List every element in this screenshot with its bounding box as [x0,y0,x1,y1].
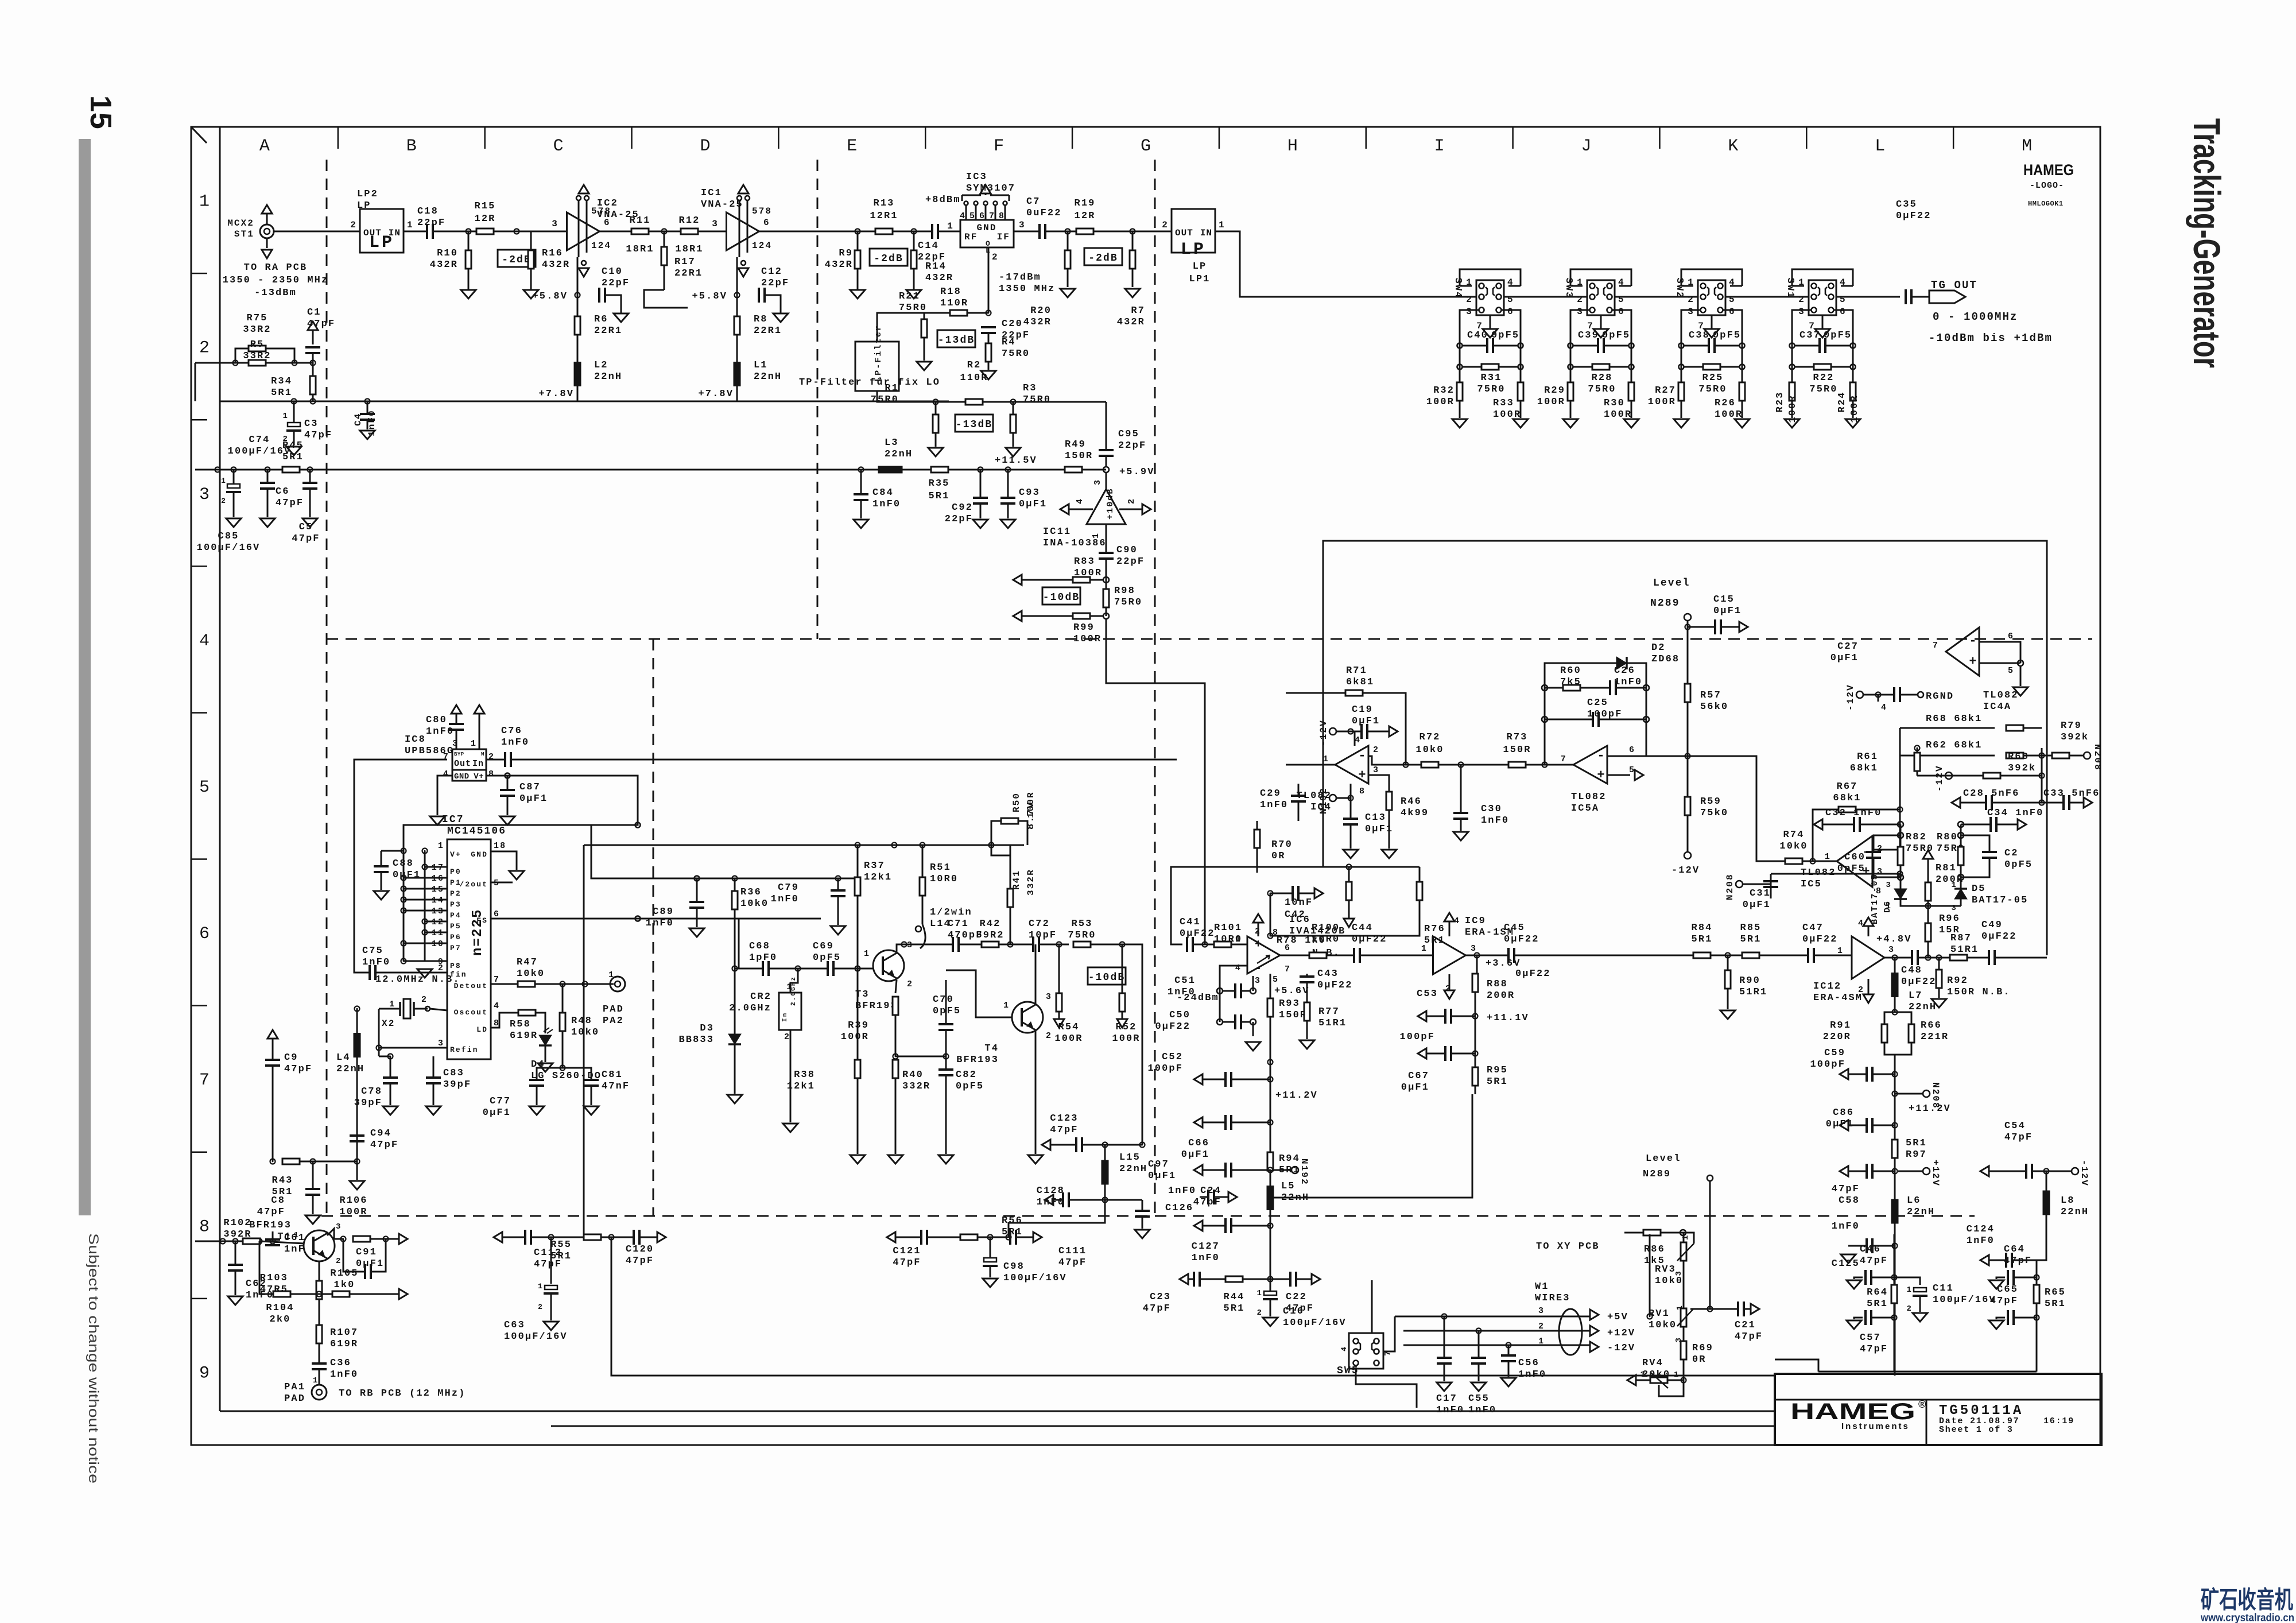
svg-text:P0: P0 [450,867,461,876]
resistor R29 100R left [1568,382,1573,401]
svg-text:432R: 432R [825,259,853,270]
svg-text:-13dB: -13dB [956,419,993,431]
svg-text:9: 9 [199,1364,210,1383]
svg-text:P3: P3 [450,900,461,909]
svg-text:5: 5 [1729,295,1736,305]
svg-text:1k0: 1k0 [334,1280,355,1291]
svg-text:6k81: 6k81 [1346,677,1374,688]
inductor L1 22nH [736,347,738,401]
svg-text:150R: 150R [1279,1010,1307,1021]
svg-text:C31: C31 [1750,888,1771,899]
svg-text:In: In [472,759,484,769]
diode detector columns R82 R80 [1900,824,1902,847]
svg-text:IC5A: IC5A [1571,803,1599,814]
svg-text:7: 7 [199,1071,210,1090]
svg-text:P4: P4 [450,911,461,920]
svg-text:RF: RF [964,232,978,242]
svg-text:C46: C46 [1860,1244,1881,1255]
svg-text:D4: D4 [531,1059,545,1070]
svg-text:C126: C126 [1165,1203,1193,1214]
svg-text:10k0: 10k0 [1655,1276,1683,1287]
svg-text:47pF: 47pF [1832,1184,1860,1195]
svg-text:C29: C29 [1260,788,1281,799]
wire IC11 chain down to mixer IC6 input [1106,619,1205,944]
svg-text:T4: T4 [984,1043,999,1054]
svg-text:4: 4 [1355,735,1361,745]
svg-text:R94: R94 [1279,1153,1300,1164]
frame corner diagonal [191,127,207,143]
svg-text:0µF1: 0µF1 [1743,900,1771,911]
wire R13 to C14 [893,231,932,233]
svg-text:HAMEG: HAMEG [2023,161,2074,179]
svg-text:0uF22: 0uF22 [1026,208,1062,219]
svg-text:In: In [782,1012,789,1022]
svg-text:4: 4 [1618,277,1625,288]
IC4A pin5 wire [1979,663,2003,664]
svg-text:IC7: IC7 [442,814,464,826]
svg-text:332R: 332R [902,1081,930,1092]
svg-text:C88: C88 [393,858,414,869]
svg-text:1350 MHz: 1350 MHz [999,284,1055,295]
svg-text:4: 4 [494,1001,500,1011]
svg-text:4: 4 [1881,703,1887,712]
capacitor C8 47pF [312,1161,314,1188]
svg-text:7: 7 [989,211,995,221]
svg-text:P7: P7 [450,944,461,952]
svg-text:1: 1 [471,739,477,749]
svg-text:16:19: 16:19 [2043,1416,2074,1426]
svg-text:R100: R100 [1312,923,1340,933]
svg-text:2.0GHz: 2.0GHz [790,976,797,1006]
svg-text:5: 5 [1629,765,1635,775]
svg-text:R19: R19 [1075,198,1096,209]
svg-text:H: H [1287,137,1298,156]
svg-text:1nF0: 1nF0 [1468,1405,1496,1416]
svg-text:+12V: +12V [1607,1328,1635,1339]
svg-text:R6: R6 [594,314,608,325]
svg-text:22pF: 22pF [918,252,946,263]
svg-text:R28: R28 [1592,373,1613,384]
svg-text:4: 4 [1840,277,1847,288]
svg-text:C45: C45 [1504,923,1525,933]
svg-text:1: 1 [1825,852,1831,862]
svg-text:C10: C10 [602,266,623,277]
capacitor C92 22pF [980,470,982,497]
svg-text:47pF: 47pF [1735,1331,1763,1342]
svg-text:5: 5 [969,211,976,221]
svg-text:100R: 100R [1426,397,1455,408]
svg-text:12.0MHz N.B.: 12.0MHz N.B. [375,974,460,985]
svg-text:C52: C52 [1162,1052,1183,1063]
svg-text:R7: R7 [1131,305,1145,316]
svg-text:18R1: 18R1 [626,244,654,255]
svg-text:8: 8 [488,769,495,779]
svg-text:1: 1 [313,1376,319,1385]
svg-text:1: 1 [1798,277,1805,288]
svg-text:0µF22: 0µF22 [1317,980,1353,991]
wire R94 node to R95 [1270,1094,1472,1198]
svg-text:C47: C47 [1802,923,1824,933]
svg-text:1: 1 [221,477,227,485]
T1 collector R106 [327,1229,343,1239]
svg-text:R99: R99 [1073,622,1095,633]
svg-text:10R0: 10R0 [1312,934,1340,945]
svg-text:100R: 100R [1073,634,1102,645]
relay SW4 pin7 ground [1490,315,1491,329]
svg-text:R48: R48 [571,1016,592,1027]
opamp IC5 TL082 [1837,836,1872,887]
svg-text:C: C [553,137,564,156]
svg-text:5: 5 [199,778,210,797]
svg-text:IC8: IC8 [405,734,426,745]
svg-text:C15: C15 [1713,594,1735,605]
gray margin bar [79,139,91,1215]
svg-text:10R0: 10R0 [930,874,958,885]
ground [1452,419,1467,428]
wire R15 to IC2 [494,231,567,233]
svg-text:47pF: 47pF [1990,1296,2018,1307]
svg-text:1: 1 [407,220,414,230]
ground [1735,419,1750,428]
svg-text:2: 2 [1858,985,1864,995]
svg-text:0µF1: 0µF1 [483,1107,511,1118]
svg-text:1/2win: 1/2win [930,907,972,918]
svg-text:22pF: 22pF [1116,556,1145,567]
ground [917,362,932,370]
resistor R83 100R [1103,577,1109,583]
svg-text:0pF5: 0pF5 [2004,859,2033,870]
svg-text:R17: R17 [674,257,696,268]
svg-text:1nF0: 1nF0 [1518,1369,1546,1380]
svg-text:C111: C111 [1058,1246,1087,1257]
svg-text:22nH: 22nH [1119,1164,1147,1175]
svg-text:0pF5: 0pF5 [1713,330,1741,341]
svg-text:N192: N192 [1318,787,1329,814]
wire C32 row [1860,824,1901,826]
svg-text:100pF: 100pF [1147,1063,1183,1074]
svg-text:432R: 432R [925,273,953,284]
svg-text:-12V: -12V [1607,1343,1635,1354]
svg-text:100µF/16V: 100µF/16V [197,543,261,553]
wire bus 2484 [551,1426,1775,1427]
svg-text:+8dBm: +8dBm [925,195,961,206]
svg-text:BFR193: BFR193 [249,1220,292,1231]
svg-text:22nH: 22nH [1909,1002,1937,1013]
node [466,229,471,234]
attenuator -13dB upper [937,330,975,347]
svg-text:R43: R43 [272,1175,293,1186]
cable ellipse [1559,1309,1582,1355]
dashed partition vertical D [817,160,819,639]
svg-text:C91: C91 [356,1247,377,1258]
svg-text:R98: R98 [1114,586,1135,596]
svg-text:C54: C54 [2004,1121,2026,1132]
svg-text:IC1: IC1 [701,188,722,199]
svg-text:C43: C43 [1317,969,1339,979]
svg-text:R49: R49 [1065,439,1086,450]
node +5.8V IC1 [736,257,738,347]
svg-text:R8: R8 [754,314,768,325]
svg-text:75R0: 75R0 [1023,394,1051,405]
svg-text:R91: R91 [1830,1020,1851,1031]
svg-text:4: 4 [960,211,966,221]
svg-text:0µF22: 0µF22 [1981,931,2017,942]
svg-text:C93: C93 [1019,487,1040,498]
wire R12 to IC1 [698,231,727,233]
svg-text:IN: IN [1200,228,1212,238]
svg-text:R105: R105 [330,1268,358,1279]
svg-text:3: 3 [1466,307,1473,317]
svg-text:C36: C36 [330,1358,351,1369]
svg-text:2: 2 [1577,295,1584,305]
svg-text:22pF: 22pF [602,278,630,289]
svg-text:Refin: Refin [450,1045,479,1054]
svg-text:1: 1 [1681,1234,1690,1240]
capacitor C93 0uF1 [1007,470,1009,497]
wire IC1 to R13 [759,231,875,233]
ground [1563,419,1578,428]
svg-text:1: 1 [1235,935,1242,944]
svg-text:IC12: IC12 [1813,981,1841,992]
svg-text:D2: D2 [1651,642,1666,653]
svg-text:1: 1 [1421,944,1428,954]
svg-text:18: 18 [494,841,506,851]
svg-text:R76: R76 [1424,924,1445,935]
svg-text:M: M [481,752,486,757]
opamp IC4A TL082 [1946,627,1979,676]
svg-text:3: 3 [552,219,559,229]
svg-text:1nF0: 1nF0 [646,918,674,929]
attenuator -2dB right [1084,248,1122,265]
svg-text:C38: C38 [1689,330,1710,341]
svg-text:R73: R73 [1507,732,1528,743]
IC8 pin1 supply arrow [474,705,484,714]
wire IC8 Out to fin loop [354,760,447,973]
svg-text:C7: C7 [1026,196,1041,207]
svg-text:0µF22: 0µF22 [1802,934,1838,945]
svg-text:R39: R39 [848,1020,869,1031]
svg-text:1nF0: 1nF0 [1192,1253,1220,1264]
ground [1006,448,1021,456]
ground [1785,419,1799,428]
ground [1513,419,1528,428]
svg-text:R85: R85 [1740,923,1762,933]
svg-text:R96: R96 [1939,913,1960,924]
svg-text:124: 124 [591,241,611,251]
svg-text:2k0: 2k0 [270,1314,291,1325]
dashed partition horizontal row8 [321,1215,1975,1217]
svg-text:RV3: RV3 [1655,1264,1676,1275]
svg-text:C6: C6 [276,486,290,497]
svg-text:TO RA PCB: TO RA PCB [244,262,308,273]
svg-text:N208: N208 [1725,873,1735,900]
wire IC2 to R11 [600,231,631,233]
svg-text:R95: R95 [1487,1065,1508,1076]
svg-text:221R: 221R [1921,1032,1949,1043]
svg-text:4: 4 [199,632,210,651]
capacitor C5 47pF [309,470,311,482]
svg-text:-12V: -12V [1934,765,1945,792]
attenuator ladder wire [1460,296,1900,298]
svg-text:1nF0: 1nF0 [771,894,799,905]
svg-text:75R0: 75R0 [1114,597,1142,608]
svg-text:R30: R30 [1604,398,1625,409]
svg-text:IF: IF [997,232,1010,242]
resistor R10 432R [468,231,470,250]
svg-text:0µF1: 0µF1 [1830,653,1859,664]
capacitor C13b wire to IC5 pin8 [1771,873,1872,875]
IC7 /2out stub [491,882,513,884]
svg-text:0pF5: 0pF5 [956,1081,984,1092]
svg-text:C12: C12 [761,266,782,277]
wire IC8 V+ to IC7 V+ rail [404,776,638,851]
wire ST1 to LP2 [274,231,360,233]
relay SW5 [1349,1333,1383,1369]
IC7 FS wire [491,918,821,920]
svg-text:R31: R31 [1481,373,1502,384]
svg-text:C80: C80 [426,715,447,726]
svg-text:47pF: 47pF [276,498,304,509]
frame column ticks and letters [338,127,339,149]
svg-text:100pF: 100pF [1399,1032,1435,1043]
svg-text:3: 3 [1019,220,1026,230]
svg-text:R70: R70 [1271,839,1293,850]
svg-text:1nF0: 1nF0 [1967,1235,1995,1246]
svg-text:R53: R53 [1072,919,1093,929]
svg-text:0µF22: 0µF22 [1352,934,1387,945]
svg-text:C97: C97 [1148,1159,1169,1170]
resistor R30 100R right [1628,382,1634,401]
svg-text:4: 4 [1729,277,1736,288]
svg-text:L: L [1875,137,1885,156]
svg-text:2: 2 [1466,295,1473,305]
svg-text:C51: C51 [1174,975,1196,986]
IC1 bias pins [738,185,748,193]
svg-text:R44: R44 [1224,1292,1245,1303]
svg-text:2: 2 [784,1032,790,1042]
svg-text:0µF1: 0µF1 [1019,499,1047,510]
svg-text:R104: R104 [266,1303,294,1314]
svg-text:1: 1 [389,1000,395,1009]
svg-text:C57: C57 [1860,1333,1881,1343]
svg-text:R62 68k1: R62 68k1 [1926,740,1982,751]
svg-text:Subject to change without noti: Subject to change without notice [86,1233,101,1483]
svg-text:P8: P8 [450,962,461,970]
svg-text:392k: 392k [2008,763,2036,774]
svg-text:22nH: 22nH [754,371,782,382]
svg-text:C124: C124 [1967,1224,1995,1235]
svg-text:5R1: 5R1 [1002,1227,1023,1238]
svg-text:75R0: 75R0 [871,394,899,405]
svg-text:1nF0: 1nF0 [1168,987,1196,998]
svg-text:1nF0: 1nF0 [330,1369,358,1380]
wire C34 row [1961,824,1991,826]
wire LP1 to attenuator ladder [1215,231,1460,297]
wire IC3 IF to C7 [1014,231,1040,233]
svg-text:L2: L2 [594,360,608,371]
svg-text:3: 3 [1886,881,1892,890]
T4 collector wire [1035,944,1037,1005]
svg-text:100µF/16V: 100µF/16V [228,446,292,457]
svg-text:R2: R2 [967,360,982,371]
svg-text:C25: C25 [1587,698,1608,708]
resistor R99 100R [1103,613,1109,619]
svg-text:L6: L6 [1907,1195,1921,1206]
node N208 +11.2V [1923,1090,1930,1097]
svg-text:47nF: 47nF [602,1081,630,1092]
svg-text:W1: W1 [1535,1281,1549,1292]
IC5A feedback loop [1545,663,1646,765]
svg-text:L1: L1 [754,360,768,371]
svg-text:GND: GND [471,850,488,859]
svg-text:33R2: 33R2 [243,324,271,335]
svg-text:ZD68: ZD68 [1651,654,1680,665]
svg-text:L4: L4 [336,1052,351,1063]
svg-text:P6: P6 [450,933,461,942]
resistor R24 100R right [1850,382,1856,401]
svg-text:0µF1: 0µF1 [1713,606,1742,617]
svg-text:1: 1 [1323,754,1329,764]
svg-text:T1: T1 [277,1231,292,1242]
wire L15 node down to C121 row [1104,1200,1106,1216]
svg-text:SW1: SW1 [1785,278,1795,299]
svg-text:R107: R107 [330,1327,358,1338]
svg-text:15: 15 [84,95,117,130]
svg-text:7: 7 [1561,754,1567,764]
svg-text:Out: Out [454,759,471,769]
row C23 R44 C22 C16 [1180,1274,1188,1284]
svg-text:R71: R71 [1346,665,1367,676]
svg-text:C3: C3 [304,419,319,429]
resistor R33 100R right [1518,382,1523,401]
svg-text:C69: C69 [813,941,834,952]
svg-text:C82: C82 [956,1070,977,1080]
svg-text:51R1: 51R1 [1950,944,1979,955]
svg-text:C53: C53 [1417,989,1438,1000]
svg-text:6: 6 [979,211,986,221]
IC8 V+ node C87 [486,775,507,777]
svg-text:2.0GHz: 2.0GHz [729,1003,771,1014]
resistor R23 100R left [1789,382,1795,401]
svg-text:75R0: 75R0 [899,303,927,313]
svg-text:C8: C8 [271,1195,285,1206]
svg-text:10k0: 10k0 [1649,1320,1677,1331]
svg-text:R40: R40 [902,1070,924,1080]
svg-text:+7.8V: +7.8V [538,389,574,400]
svg-text:n=225: n=225 [470,908,486,956]
svg-text:100R: 100R [1026,791,1036,818]
svg-text:R35: R35 [929,478,950,489]
resistor R25 75R0 [1679,365,1684,370]
svg-text:150R: 150R [1503,745,1531,756]
svg-text:C123: C123 [1050,1113,1078,1124]
svg-text:22R1: 22R1 [754,326,782,336]
capacitor C90 22pF [1106,524,1107,552]
svg-text:C95: C95 [1118,429,1139,440]
svg-text:2: 2 [350,220,357,230]
T3 collector wire [897,944,904,953]
svg-text:Oscout: Oscout [454,1008,488,1017]
svg-text:SW3: SW3 [1563,278,1574,299]
svg-text:C59: C59 [1824,1048,1845,1059]
svg-text:619R: 619R [330,1339,358,1350]
svg-text:TO RB PCB (12 MHz): TO RB PCB (12 MHz) [339,1388,466,1399]
svg-text:C78: C78 [361,1086,382,1097]
svg-text:R15: R15 [475,201,496,212]
svg-text:100µF/16V: 100µF/16V [1003,1273,1067,1284]
svg-text:5R1: 5R1 [1487,1076,1508,1087]
svg-text:C49: C49 [1981,920,2003,931]
